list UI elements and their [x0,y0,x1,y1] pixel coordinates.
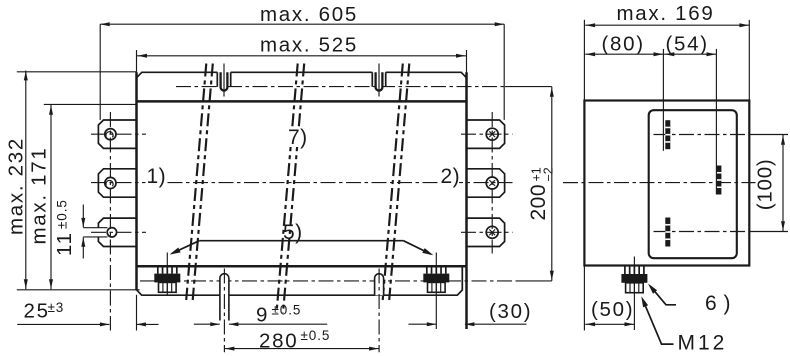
side terminal slot 1 [665,120,670,149]
right mounting tab 3 [467,218,505,246]
left M12 stud [157,266,159,273]
svg-text:(80): (80) [602,33,645,56]
svg-text:max. 171: max. 171 [28,147,51,245]
svg-text:max. 232: max. 232 [5,137,28,235]
label 6) with leader [650,286,676,305]
centerline middle row y=182.6 [91,182,513,184]
centerline bottom studs row y=280.9 [140,280,518,282]
label 7) [285,128,309,147]
terminal cover (rounded) [649,110,737,258]
extension line (80)/(54) at terminal 1 [662,49,664,151]
extension line (54) right at terminal 2 [715,49,717,195]
main body bottom edge [137,265,467,268]
side terminal slot 2 [716,166,721,195]
centerline right tabs vertical [491,112,493,254]
svg-text:(54): (54) [666,33,709,56]
left terminal pin [220,274,229,321]
dimension (100) rotated [782,135,784,232]
dimension 280 +-0.5 [224,348,379,350]
svg-text:5): 5) [283,221,303,244]
left mounting tab 3 (slotted) [98,218,136,246]
centerline left tab 3 row [91,231,146,233]
main body top edge with corner chamfers and terminal notches [137,72,218,78]
left mounting tab 1 [98,120,136,148]
side view centerlines redrawn inside body [654,134,751,136]
dimension (30) [409,323,437,325]
label 5) with leader [199,240,403,242]
svg-text:6 ): 6 ) [705,292,731,315]
svg-text:−2: −2 [542,167,556,181]
dimension max. 605 [100,23,504,25]
right mounting tab 2 [467,169,505,197]
right pin centerline [378,269,380,353]
svg-text:±0.5: ±0.5 [55,199,70,229]
svg-text:200: 200 [527,184,550,221]
side view body outline [584,101,749,266]
label M12 with leader [643,301,673,344]
dimension max. 525 [137,55,467,57]
centerline top terminal row y=86.6 [176,86,505,88]
dimension max. 169 [585,24,749,26]
svg-text:±0.5: ±0.5 [301,328,331,343]
main body right edge [466,50,468,73]
dimension max. 171 (rotated) [50,105,52,289]
right terminal pin [375,274,384,296]
phantom busbar diagonal pair left [186,64,206,301]
svg-text:max. 605: max. 605 [260,3,358,26]
svg-text:(100): (100) [754,158,777,210]
main body left edge [136,50,138,73]
side stud M12 [624,266,626,275]
svg-text:7): 7) [288,126,308,149]
svg-text:(50): (50) [591,298,634,321]
dimension 11 +-0.5 (rotated) [82,205,84,228]
svg-text:9: 9 [256,303,269,326]
phantom busbar diagonal pair right [383,64,403,301]
left mounting tab 2 [98,169,136,197]
dimension (54) [663,53,716,55]
lid joint line [137,100,467,103]
svg-text:(30): (30) [489,300,532,323]
top slot centerline stub [378,64,380,97]
side terminal slot 3 [665,218,670,247]
left pin centerline [223,269,225,353]
svg-text:M12: M12 [678,332,728,355]
svg-text:2): 2) [441,165,461,188]
dimension 9 +-0.5 [194,323,220,325]
svg-text:25: 25 [24,300,50,323]
centerline right tab 3 row [461,231,513,233]
phantom busbar diagonal pair middle [277,64,298,314]
side view centerline row1 [654,134,751,136]
side view centerline row3 [654,231,751,233]
dimension (50) [585,323,634,325]
svg-text:max. 169: max. 169 [617,2,715,25]
dimension (80) [585,53,663,55]
centerline right tab 1 row [461,133,513,135]
side view main centerline [563,182,756,184]
top slot centerline stub [223,64,225,97]
centerline left tabs vertical [109,112,111,331]
svg-text:max. 525: max. 525 [260,34,358,57]
top terminal slot at x=379.0 [371,72,373,87]
svg-text:11: 11 [53,231,76,256]
top terminal slot at x=224.0 [216,72,218,87]
svg-text:±0.5: ±0.5 [272,303,302,318]
dimension 200 +1/-2 (rotated) [551,87,553,281]
centerline left tab 1 row [91,133,146,135]
label 1) [146,169,167,186]
right M12 stud [426,266,428,273]
dimension 25 +-3 [17,323,109,325]
right mounting tab 1 [467,120,505,148]
label 2) [438,169,459,186]
svg-text:±3: ±3 [48,300,65,315]
svg-text:280: 280 [259,329,298,352]
dimension max. 232 (rotated) [25,71,27,290]
terminal base plate bottom outline [137,266,463,295]
svg-text:1): 1) [147,165,167,188]
